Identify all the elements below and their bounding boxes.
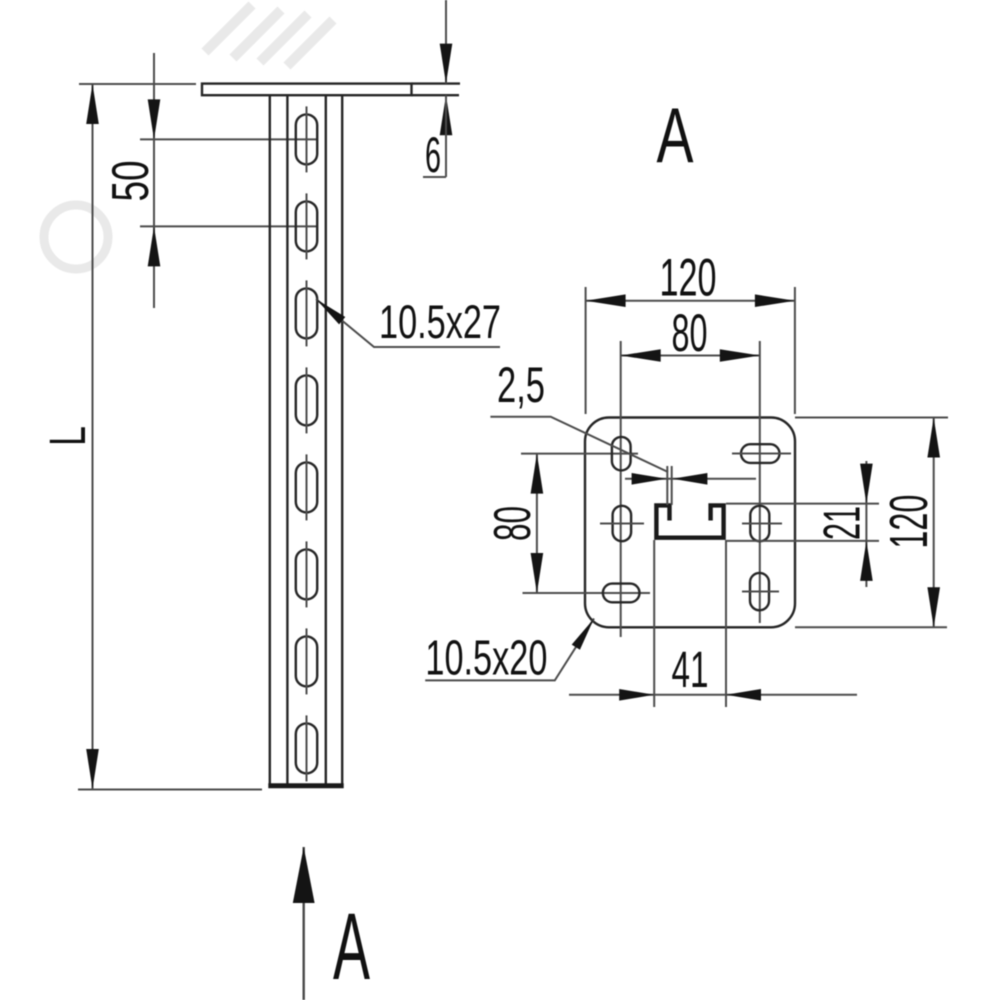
dimension 50 arrow down xyxy=(148,99,161,139)
svg-text:10.5x20: 10.5x20 xyxy=(425,631,547,685)
leader 2,5 xyxy=(490,417,668,472)
channel profile outer right edge xyxy=(341,95,343,783)
slot bottom-right xyxy=(742,573,779,610)
slot 6 xyxy=(296,541,317,607)
dimension 41 arrow left-pointing xyxy=(726,689,761,701)
extension line plate top left xyxy=(79,83,196,85)
slot 5 xyxy=(296,454,317,520)
dimension 21 arrow up-pointing xyxy=(860,541,873,581)
channel profile inner right edge xyxy=(325,95,327,783)
dimension 80 left arrow down xyxy=(531,553,544,593)
svg-text:80: 80 xyxy=(672,304,708,363)
top plate side view xyxy=(202,84,412,96)
centerline right slot column xyxy=(759,432,761,623)
centerline left slot column xyxy=(620,433,622,637)
dimension 2,5 extension lines xyxy=(666,466,668,505)
slot top-right xyxy=(732,444,791,463)
dimension 2,5 arrow right-pointing xyxy=(632,473,667,485)
dimension 80 top arrow left xyxy=(621,349,661,362)
dimension 41 arrow right-pointing xyxy=(619,689,654,701)
dimension 120 top arrow left xyxy=(586,294,626,307)
dimension 6 arrow down xyxy=(440,44,453,84)
base plate top view xyxy=(585,418,795,628)
dimension 80 top arrow right xyxy=(720,349,760,362)
svg-text:41: 41 xyxy=(672,641,709,698)
slot 3 xyxy=(296,280,317,346)
channel profile outer left edge xyxy=(269,95,271,783)
dimension 80 top line xyxy=(621,355,760,357)
dimension 6 foot xyxy=(423,176,446,178)
dimension 50 arrow up xyxy=(148,226,161,266)
extension lines plate right for dim 6 xyxy=(412,82,461,84)
dimension 120 right line xyxy=(933,418,935,628)
dimension 80 left line xyxy=(536,454,538,593)
svg-text:10.5x27: 10.5x27 xyxy=(379,295,501,348)
dimension 2,5 arrow left-pointing xyxy=(672,473,707,485)
extension line slot1 center xyxy=(140,138,317,140)
dimension 21 extension lines xyxy=(726,503,879,505)
svg-text:120: 120 xyxy=(879,495,939,549)
strut channel section xyxy=(656,505,723,537)
watermark stripes xyxy=(205,5,333,66)
dimension 6 upper line xyxy=(445,0,447,84)
slot 8 xyxy=(296,715,317,781)
section arrow A bottom xyxy=(293,847,315,1000)
dimension 80 left extension bottom xyxy=(523,592,651,594)
extension line slot2 center xyxy=(140,225,317,227)
dimension L arrow down xyxy=(86,749,99,789)
svg-text:80: 80 xyxy=(484,506,542,541)
svg-text:21: 21 xyxy=(814,506,872,540)
slot bottom-left xyxy=(603,584,640,603)
svg-text:120: 120 xyxy=(660,249,717,308)
dimension 6 lower line xyxy=(445,95,447,177)
svg-text:6: 6 xyxy=(425,127,441,183)
channel edges extension down xyxy=(653,540,655,707)
slot 4 xyxy=(296,367,317,433)
dimension 120 top extension lines xyxy=(585,287,587,414)
dimension 21 line xyxy=(865,461,867,587)
slot mid-right xyxy=(742,506,782,541)
dimension 120 top line xyxy=(586,300,795,302)
dimension 50 line xyxy=(153,53,155,308)
slot mid-left xyxy=(600,506,644,541)
dimension 120 right arrow up xyxy=(927,418,940,458)
svg-text:A: A xyxy=(657,91,694,179)
dimension 6 arrow up xyxy=(440,95,453,135)
dimension 120 right arrow down xyxy=(927,587,940,627)
leader 10.5x20 xyxy=(425,619,594,681)
slot 2 xyxy=(296,193,317,259)
dimension 21 arrow down-pointing xyxy=(860,464,873,504)
slot top-left xyxy=(612,437,631,471)
dimension 120 top arrow right xyxy=(755,294,795,307)
extension line profile bottom xyxy=(78,789,262,791)
dimension 80 left extension top xyxy=(521,453,638,455)
svg-text:A: A xyxy=(333,894,370,1000)
leader 10.5x27 xyxy=(316,299,500,347)
svg-text:50: 50 xyxy=(102,161,160,202)
dimension L arrow up xyxy=(86,84,99,124)
dimension 2,5 line xyxy=(625,478,756,480)
dimension 120 right extension lines xyxy=(795,417,948,419)
slot 7 xyxy=(296,628,317,694)
channel profile bottom edge xyxy=(268,783,343,788)
dimension 80 left arrow up xyxy=(531,454,544,494)
dimension 80 top extension lines xyxy=(620,341,622,433)
svg-text:L: L xyxy=(39,426,96,446)
slot 1 xyxy=(296,106,317,172)
svg-text:2,5: 2,5 xyxy=(497,357,545,413)
channel profile inner left edge xyxy=(286,95,288,783)
watermark ring xyxy=(44,205,108,269)
dimension L line xyxy=(92,84,94,789)
dimension 41 line xyxy=(569,694,857,696)
